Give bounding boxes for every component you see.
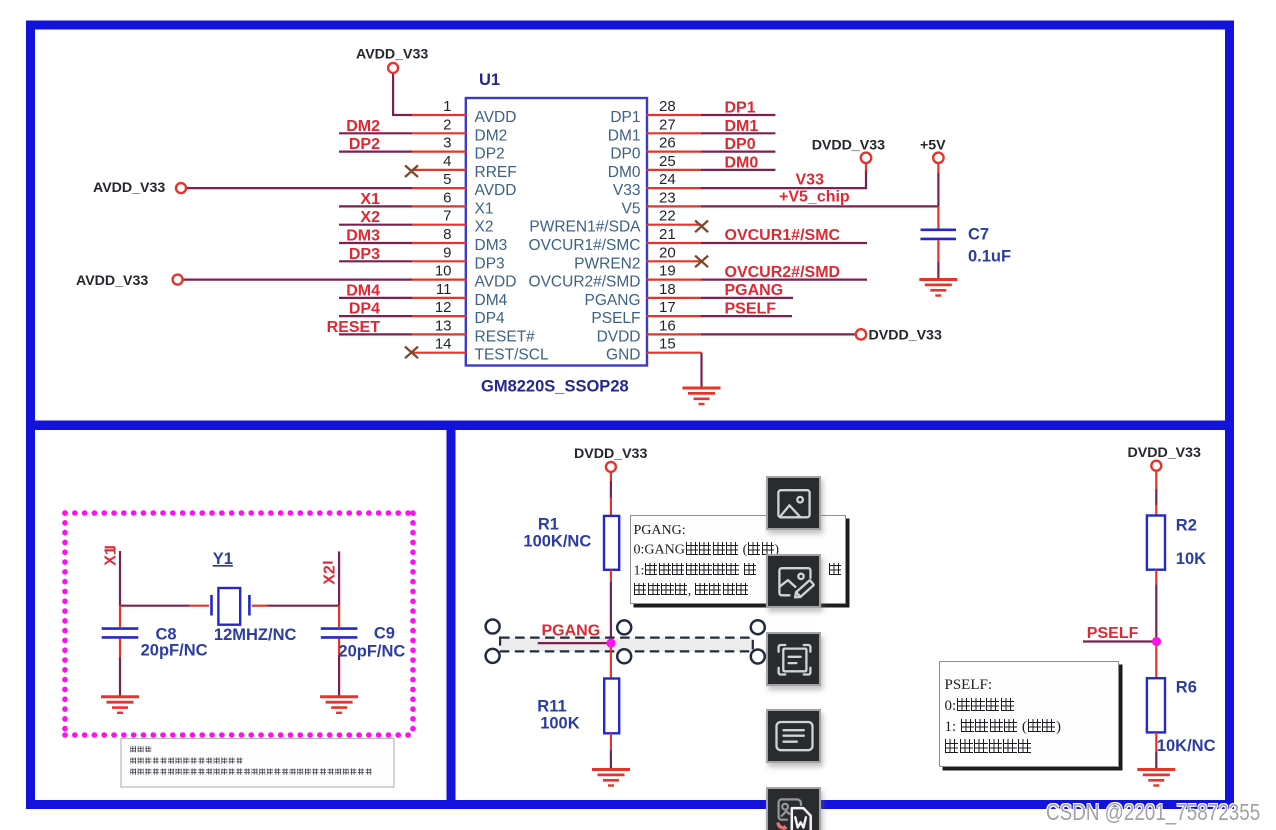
svg-text:0.1uF: 0.1uF <box>968 248 1011 266</box>
power DVDD_V33 pin16 <box>856 329 866 339</box>
svg-text:AVDD_V33: AVDD_V33 <box>76 273 148 289</box>
svg-text:DVDD_V33: DVDD_V33 <box>869 327 942 343</box>
svg-text:RESET: RESET <box>327 319 381 336</box>
wire pin 6 stub <box>412 205 467 207</box>
wire net DP0 <box>701 151 775 153</box>
svg-text:DVDD_V33: DVDD_V33 <box>574 446 647 462</box>
svg-text:PGANG: PGANG <box>725 282 784 299</box>
wire net DM1 <box>701 132 775 134</box>
svg-text:X1: X1 <box>475 200 494 217</box>
wire pin 16 stub <box>647 333 702 335</box>
capacitor C8 <box>119 606 121 627</box>
svg-text:R2: R2 <box>1176 517 1197 535</box>
frame: top schematic box <box>31 25 1230 425</box>
wire net DP1 <box>701 114 775 116</box>
wire pin 28 stub <box>647 114 702 116</box>
svg-text:14: 14 <box>435 336 452 353</box>
svg-text:23: 23 <box>659 189 676 206</box>
svg-text:AVDD_V33: AVDD_V33 <box>93 180 165 196</box>
wire pin 12 stub <box>412 315 467 317</box>
svg-text:12MHZ/NC: 12MHZ/NC <box>214 626 297 644</box>
svg-text:U1: U1 <box>479 71 500 89</box>
svg-text:DP1: DP1 <box>725 100 756 117</box>
resistor R1 <box>604 516 619 570</box>
svg-text:OVCUR1#/SMC: OVCUR1#/SMC <box>529 237 641 254</box>
svg-text:DP0: DP0 <box>725 136 756 153</box>
wire pin19 OVCUR2#/SMD <box>701 279 867 281</box>
wire R1 to PGANG node <box>610 570 612 582</box>
wire pin18 PGANG <box>701 297 793 299</box>
wire pin 19 stub <box>647 279 702 281</box>
svg-text:5: 5 <box>443 171 451 188</box>
icon button: ocr select <box>766 632 821 686</box>
svg-text:V33: V33 <box>796 172 825 189</box>
svg-text:26: 26 <box>659 135 676 152</box>
resistor R2 <box>1147 516 1165 570</box>
svg-text:3: 3 <box>443 135 451 152</box>
svg-text:DM1: DM1 <box>725 118 759 135</box>
svg-text:4: 4 <box>443 153 451 170</box>
svg-text:DP3: DP3 <box>349 246 380 263</box>
icon button: image edit <box>766 554 821 608</box>
capacitor C9 <box>338 606 340 627</box>
svg-text:DP4: DP4 <box>475 310 506 327</box>
svg-text:27: 27 <box>659 116 676 133</box>
wire pin23 V5 to +5V <box>701 205 938 207</box>
wire net DP4 <box>339 315 412 317</box>
note text line3 <box>130 769 136 775</box>
svg-text:C8: C8 <box>156 625 177 643</box>
icon button: article <box>766 709 821 763</box>
wire pin 18 stub <box>647 297 702 299</box>
capacitor C7 <box>921 230 957 239</box>
wire pin 1 stub <box>412 114 467 116</box>
ground C8 <box>101 697 139 713</box>
svg-text:R1: R1 <box>538 516 559 534</box>
svg-text:13: 13 <box>435 317 452 334</box>
svg-text:9: 9 <box>443 244 451 261</box>
selection highlight bar <box>500 638 753 652</box>
wire pin 21 stub <box>647 242 702 244</box>
note text line2 <box>130 758 136 764</box>
wire net DP2 <box>339 151 412 153</box>
crystal Y1 <box>210 595 213 616</box>
svg-text:+5V: +5V <box>920 138 946 154</box>
wire X1 to crystal <box>120 605 190 607</box>
wire pin17 PSELF <box>701 315 792 317</box>
svg-text:8: 8 <box>443 226 451 243</box>
wire pin 26 stub <box>647 151 702 153</box>
wire net DM2 <box>339 132 412 134</box>
svg-text:100K/NC: 100K/NC <box>523 532 591 550</box>
svg-text:TEST/SCL: TEST/SCL <box>475 347 549 364</box>
svg-text:24: 24 <box>659 171 676 188</box>
wire net DM3 <box>339 242 412 244</box>
svg-text:11: 11 <box>436 281 452 298</box>
wire pin 9 stub <box>412 260 467 262</box>
op-amp U1 chip body GM8220S_SSOP28 <box>466 98 647 366</box>
wire DVDD to R1 <box>610 472 612 481</box>
svg-text:PSELF: PSELF <box>591 310 640 327</box>
wire pin 10 stub <box>412 279 467 281</box>
svg-text:RREF: RREF <box>475 164 517 181</box>
wire pin 11 stub <box>412 297 467 299</box>
svg-text:16: 16 <box>659 317 676 334</box>
right net wires <box>701 115 938 387</box>
svg-text:GND: GND <box>606 347 640 364</box>
svg-text:AVDD: AVDD <box>475 109 517 126</box>
tooltip PGANG note <box>630 515 846 605</box>
wire AVDD_V33 top to pin1 <box>393 73 412 115</box>
watermark <box>1046 799 1260 826</box>
wire pin 22 stub <box>647 224 702 226</box>
ground C9 <box>320 697 358 713</box>
svg-text:Y1: Y1 <box>213 550 233 568</box>
svg-text:R11: R11 <box>537 698 566 716</box>
wire R6 to ground <box>1155 732 1157 751</box>
svg-text:DM4: DM4 <box>475 292 508 309</box>
svg-text:DP3: DP3 <box>475 255 505 272</box>
wire net DP3 <box>339 260 412 262</box>
wire pin 27 stub <box>647 132 702 134</box>
wire crystal to X2 <box>252 605 268 607</box>
svg-text:X2: X2 <box>322 565 339 585</box>
wire R11 to ground <box>610 733 612 750</box>
svg-text:2: 2 <box>443 116 451 133</box>
svg-text:X2: X2 <box>475 219 494 236</box>
svg-text:7: 7 <box>443 208 451 225</box>
icon button: image <box>766 476 821 530</box>
frame: bottom-right box <box>451 426 1230 805</box>
svg-text:DVDD_V33: DVDD_V33 <box>812 138 885 154</box>
svg-text:DM1: DM1 <box>608 127 641 144</box>
wire pin 4 stub <box>412 169 467 171</box>
svg-text:GM8220S_SSOP28: GM8220S_SSOP28 <box>481 378 629 396</box>
ground pin15 <box>683 388 721 404</box>
wire pin 14 stub <box>412 352 467 354</box>
U1 right pin stub wires <box>647 115 702 353</box>
wire pin 7 stub <box>412 224 467 226</box>
svg-text:OVCUR1#/SMC: OVCUR1#/SMC <box>725 227 841 244</box>
wire pin 3 stub <box>412 151 467 153</box>
wire net RESET <box>339 333 412 335</box>
svg-text:AVDD: AVDD <box>475 274 517 291</box>
svg-text:PWREN1#/SDA: PWREN1#/SDA <box>529 219 641 236</box>
svg-text:DP0: DP0 <box>610 146 641 163</box>
resistor R6 <box>1147 678 1165 732</box>
node X1 vertical wire <box>119 551 121 606</box>
wire pin 17 stub <box>647 315 702 317</box>
note text line1 <box>130 746 136 752</box>
svg-text:OVCUR2#/SMD: OVCUR2#/SMD <box>725 264 841 281</box>
svg-text:20pF/NC: 20pF/NC <box>141 642 208 660</box>
wire pin 5 stub <box>412 187 467 189</box>
wire net DM4 <box>339 297 412 299</box>
no-connect X pin22 <box>695 221 708 233</box>
svg-text:X1: X1 <box>360 191 380 208</box>
resistor R11 <box>604 679 619 734</box>
svg-text:10K: 10K <box>1176 550 1206 568</box>
svg-text:17: 17 <box>659 299 676 316</box>
wire pin 25 stub <box>647 169 702 171</box>
svg-text:DP2: DP2 <box>349 136 380 153</box>
svg-text:OVCUR2#/SMD: OVCUR2#/SMD <box>529 274 641 291</box>
wire DVDD to R2 <box>1155 471 1157 489</box>
svg-text:100K: 100K <box>540 715 580 733</box>
no-connect X pin14 <box>405 347 418 359</box>
tooltip PSELF note <box>939 661 1119 767</box>
svg-text:V5: V5 <box>622 200 641 217</box>
note box <box>121 739 394 788</box>
wire PGANG node to R11 <box>610 648 612 678</box>
svg-text:6: 6 <box>443 189 451 206</box>
svg-text:25: 25 <box>659 153 676 170</box>
wire PSELF stub <box>1083 640 1156 642</box>
wire pin16 DVDD to DVDD_V33 <box>701 333 856 335</box>
wire pin 24 stub <box>647 187 702 189</box>
wire pin 13 stub <box>412 333 467 335</box>
svg-text:10: 10 <box>435 263 452 280</box>
svg-text:18: 18 <box>659 281 676 298</box>
wire AVDD_V33 to pin5 <box>186 187 412 189</box>
svg-text:DM3: DM3 <box>346 228 380 245</box>
wire PSELF node to R6 <box>1155 646 1157 678</box>
no-connect X pin4 <box>405 165 418 177</box>
ground C7 <box>919 280 957 296</box>
node X2 vertical wire <box>338 551 340 605</box>
svg-text:DM4: DM4 <box>346 282 380 299</box>
svg-text:22: 22 <box>659 208 676 225</box>
wire pin21 OVCUR1#/SMC <box>701 242 867 244</box>
svg-text:DM2: DM2 <box>475 127 508 144</box>
wire pin 20 stub <box>647 260 702 262</box>
svg-text:DM0: DM0 <box>725 154 759 171</box>
selection handles <box>486 620 765 664</box>
wire net X1 <box>339 205 412 207</box>
svg-text:28: 28 <box>659 98 676 115</box>
left net wires <box>183 73 412 334</box>
wire pin 8 stub <box>412 242 467 244</box>
wire pin 2 stub <box>412 132 467 134</box>
svg-text:10K/NC: 10K/NC <box>1157 737 1216 755</box>
junction node PGANG (magenta) <box>606 639 615 648</box>
wire pin 23 stub <box>647 205 702 207</box>
svg-text:V33: V33 <box>613 182 641 199</box>
svg-text:12: 12 <box>435 299 452 316</box>
svg-text:20: 20 <box>659 244 676 261</box>
svg-text:DVDD: DVDD <box>597 328 641 345</box>
wire pin 15 stub <box>647 352 702 354</box>
svg-text:DP1: DP1 <box>610 109 640 126</box>
wire PGANG stub <box>538 642 611 644</box>
junction node PSELF (magenta) <box>1152 637 1161 646</box>
svg-text:C9: C9 <box>374 625 395 643</box>
svg-text:1: 1 <box>443 98 451 115</box>
svg-text:PSELF: PSELF <box>1087 625 1139 642</box>
magenta dotted selection boundary <box>65 513 413 735</box>
wire R2 to PSELF node <box>1155 570 1157 585</box>
wire pin24 V33 to DVDD_V33 <box>701 170 866 188</box>
svg-text:PGANG: PGANG <box>585 292 641 309</box>
wire net DM0 <box>701 169 775 171</box>
svg-text:X1: X1 <box>103 546 120 566</box>
ground R11 <box>592 770 630 786</box>
svg-text:DM0: DM0 <box>608 164 641 181</box>
U1 left pin stub wires <box>412 115 467 353</box>
svg-text:R6: R6 <box>1176 679 1197 697</box>
wire net X2 <box>339 224 412 226</box>
svg-text:19: 19 <box>659 263 676 280</box>
svg-text:21: 21 <box>659 226 676 243</box>
svg-text:DP4: DP4 <box>349 301 380 318</box>
svg-text:AVDD: AVDD <box>475 182 517 199</box>
svg-text:20pF/NC: 20pF/NC <box>338 643 405 661</box>
no-connect X pin20 <box>695 256 708 268</box>
svg-text:AVDD_V33: AVDD_V33 <box>356 47 428 63</box>
wire AVDD_V33 to pin10 <box>183 279 412 281</box>
svg-text:+V5_chip: +V5_chip <box>779 188 850 205</box>
svg-text:PWREN2: PWREN2 <box>574 255 640 272</box>
svg-text:DVDD_V33: DVDD_V33 <box>1128 445 1201 461</box>
svg-text:PGANG: PGANG <box>542 622 601 639</box>
icon button: image to doc <box>766 787 821 830</box>
svg-text:15: 15 <box>659 336 676 353</box>
svg-text:DM3: DM3 <box>475 237 508 254</box>
ground R6 <box>1137 770 1175 786</box>
svg-text:RESET#: RESET# <box>475 328 536 345</box>
wire pin15 GND down <box>700 353 702 387</box>
svg-text:X2: X2 <box>360 209 380 226</box>
frame: bottom-left box <box>31 426 452 805</box>
svg-text:C7: C7 <box>968 226 989 244</box>
svg-text:DM2: DM2 <box>346 118 380 135</box>
svg-text:DP2: DP2 <box>475 146 505 163</box>
svg-text:PSELF: PSELF <box>725 300 777 317</box>
